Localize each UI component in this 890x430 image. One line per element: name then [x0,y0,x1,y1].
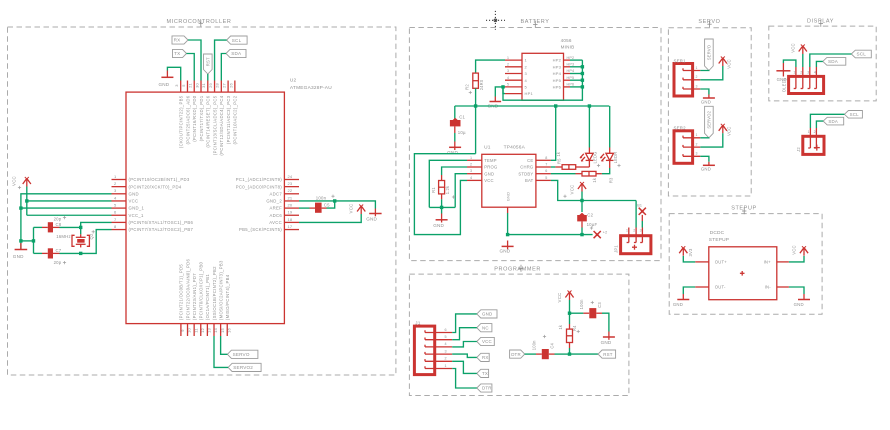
led LEDG [580,148,598,168]
svg-text:VCC: VCC [792,245,797,254]
flag SCL [227,36,248,44]
supply VCC SER2 [700,124,731,147]
ground stepup out [673,287,695,307]
frame STEPUP [669,206,822,315]
supply VCC left [12,176,31,186]
svg-text:26: 26 [228,83,233,88]
flag SDA [226,49,246,57]
svg-text:Q2: Q2 [89,233,94,239]
svg-text:HP2: HP2 [553,58,562,63]
svg-text:(PCINT11/ADC3)_PC3: (PCINT11/ADC3)_PC3 [226,95,231,144]
svg-text:1: 1 [808,130,810,134]
svg-text:PC1_(ADC1/PCINT9): PC1_(ADC1/PCINT9) [236,177,282,182]
wire SERVO2 to pin 15 [214,336,228,367]
frame SERVO [668,19,751,196]
wire ground line battery [506,213,593,236]
svg-text:24R0: 24R0 [479,79,484,90]
ground right of U2 [366,209,381,222]
svg-text:28: 28 [215,83,220,88]
svg-text:(PCINT10/ADC2)_PC2: (PCINT10/ADC2)_PC2 [233,95,238,144]
svg-text:SERVO2: SERVO2 [233,365,253,370]
svg-text:31: 31 [201,83,206,88]
svg-text:CHRG: CHRG [520,165,533,170]
svg-text:GND: GND [13,254,24,259]
connector J1 programming header [414,320,452,374]
svg-text:30: 30 [194,83,199,88]
svg-text:4056: 4056 [561,38,572,43]
svg-text:21: 21 [288,195,293,200]
svg-text:7: 7 [545,163,547,167]
svg-text:(PCINT16/RXD)_PD0: (PCINT16/RXD)_PD0 [192,95,197,142]
wire J1 to VCC [452,342,477,347]
svg-text:NC: NC [482,325,489,330]
wire battery plus [635,201,637,228]
flag RST [204,54,213,74]
svg-text:HP2: HP2 [567,56,575,60]
connector X1 4056 MINIB usb charger [505,38,574,100]
flag DTR programmer [477,384,492,392]
svg-text:10µF: 10µF [587,222,598,227]
svg-text:(PCINT19/OC2B/INT1)_PD3: (PCINT19/OC2B/INT1)_PD3 [129,177,190,182]
wire TX to pin 31 [187,54,195,81]
wire XTAL1 pin7 [81,222,112,234]
wire usb pin1 to R2 [476,60,505,73]
wire PROG to R1 [442,167,467,175]
svg-text:3: 3 [507,69,509,73]
svg-text:2: 2 [633,229,635,233]
svg-text:SDA: SDA [828,119,838,124]
ground stepup in [789,287,810,307]
wire SERVO2 [700,137,709,139]
ground OLED1 [776,60,796,82]
resistor R5 1k [555,151,589,169]
resistor R3 1k [576,171,614,183]
ground SER1 [700,89,715,104]
svg-text:VCC: VCC [727,59,732,68]
svg-text:(PCINT22/OC0A/AIN0)_PD6: (PCINT22/OC0A/AIN0)_PD6 [185,259,190,321]
svg-text:3V3: 3V3 [688,248,693,257]
svg-text:4: 4 [445,342,447,346]
origin crosshair [486,11,505,30]
wire J1 to NC [452,328,477,340]
svg-text:1: 1 [445,364,447,368]
svg-text:GND: GND [701,167,711,172]
svg-text:RX: RX [482,355,489,360]
svg-text:J2: J2 [796,147,801,152]
connector SER2 [674,126,701,164]
wire GND node TP4056 [429,174,467,214]
capacitor C1 10u [450,106,466,142]
wire J1 to TX [452,361,477,373]
svg-text:R2: R2 [465,84,470,90]
svg-text:R3: R3 [608,177,613,183]
svg-text:DTR: DTR [511,352,521,357]
svg-text:3: 3 [445,349,447,353]
svg-text:GND_2: GND_2 [266,199,282,204]
svg-text:ADC7: ADC7 [269,191,282,196]
svg-text:VCC: VCC [727,127,732,136]
wire J1 to DTR [452,369,477,389]
svg-text:1.2k: 1.2k [445,185,450,194]
svg-text:2: 2 [696,75,698,79]
svg-text:HP4: HP4 [567,69,575,73]
svg-text:GND: GND [433,223,444,228]
connector OLED1 [782,67,824,94]
svg-text:4: 4 [470,176,472,180]
svg-text:HP1: HP1 [525,91,534,96]
svg-text:22: 22 [288,188,293,193]
svg-text:VCC: VCC [348,204,353,214]
svg-text:100n: 100n [316,195,327,200]
ground top-left of U2 [159,71,174,88]
svg-text:RST: RST [205,57,210,66]
wire GND_2 pin21 [299,199,375,208]
svg-text:23: 23 [288,181,293,186]
flag RX [172,36,188,44]
svg-text:STEPUP: STEPUP [709,237,729,243]
svg-text:(PCINT25/ADC6)_AD6: (PCINT25/ADC6)_AD6 [185,95,190,144]
svg-text:VCC: VCC [790,43,795,52]
wire SCL display [810,54,852,67]
svg-text:LEDR: LEDR [613,152,618,164]
svg-text:DTR: DTR [482,386,492,391]
svg-text:SER2: SER2 [674,126,687,131]
svg-text:MINIB: MINIB [561,45,575,50]
wire BAT net [551,180,636,202]
svg-text:GND: GND [366,217,377,222]
wire GND to pins 3 and 5 [19,194,111,250]
svg-text:24: 24 [288,174,293,179]
flag RST programmer [598,350,616,358]
svg-text:GND: GND [482,312,492,317]
flag TX programmer [477,369,489,377]
svg-text:C3: C3 [597,302,602,308]
ground TP4056 [500,241,514,254]
svg-text:6: 6 [545,169,547,173]
connector J2 [796,128,824,154]
svg-text:20p: 20p [54,260,62,265]
svg-text:IN+: IN+ [764,260,772,265]
svg-text:HP3: HP3 [567,63,575,67]
svg-text:4: 4 [814,70,816,74]
ground SER2 [700,156,715,171]
svg-text:VCC: VCC [570,185,575,195]
svg-text:CE: CE [527,158,533,163]
svg-text:(PCINT17/TXD)_PD1: (PCINT17/TXD)_PD1 [199,95,204,141]
origin marks [18,91,621,338]
ground R1 [433,214,447,229]
svg-text:TP4056A: TP4056A [504,145,526,151]
svg-text:RX: RX [174,38,181,43]
capacitor C2 10uF [577,201,597,235]
svg-text:TX: TX [482,371,488,376]
flag SERVO2 [228,363,261,371]
led LEDR [600,148,618,174]
svg-text:14: 14 [213,328,218,333]
svg-text:SCL: SCL [850,112,859,117]
svg-text:IN-: IN- [765,285,772,290]
svg-text:13: 13 [207,328,212,333]
svg-text:17: 17 [288,224,293,229]
wire SDA display [816,61,822,67]
wire SERVO [700,69,709,71]
flag GND programmer [477,310,497,318]
svg-text:3: 3 [470,169,472,173]
module U3 DCDC STEPUP converter [695,230,789,300]
svg-text:2: 2 [800,70,802,74]
svg-text:C4: C4 [549,342,554,348]
svg-text:BAT: BAT [525,178,534,183]
svg-text:GND: GND [159,82,170,87]
svg-text:HP5: HP5 [553,78,562,83]
svg-text:SERVO2: SERVO2 [707,110,712,128]
svg-text:1: 1 [696,66,698,70]
svg-text:B1: B1 [637,203,642,207]
svg-text:C2: C2 [587,212,593,217]
svg-text:2: 2 [507,63,509,67]
svg-text:GND: GND [601,340,612,345]
capacitor C4 100n [525,340,570,359]
svg-text:PB5_(SCK/PCINT5): PB5_(SCK/PCINT5) [239,227,282,232]
svg-text:ATMEGA328P-AU: ATMEGA328P-AU [290,85,332,91]
svg-text:SCL: SCL [232,38,242,43]
svg-text:STDBY: STDBY [518,171,533,176]
svg-text:1k: 1k [556,151,561,156]
svg-text:(PCINT21/OC0B/T1)_PD5: (PCINT21/OC0B/T1)_PD5 [179,264,184,320]
svg-text:(OC1A/PCINT1)_PB1: (OC1A/PCINT1)_PB1 [205,274,210,321]
svg-text:SCL: SCL [857,52,867,57]
wire J1 to GND [452,314,477,333]
svg-text:C8: C8 [56,222,62,227]
capacitor C8 20p [34,216,83,232]
svg-text:PC0_(ADC0/PCINT8): PC0_(ADC0/PCINT8) [236,184,282,189]
flag TX [173,49,187,57]
svg-text:(PCINT7/XTAL2/TOSC2)_PB7: (PCINT7/XTAL2/TOSC2)_PB7 [129,227,194,232]
svg-text:GND_1: GND_1 [129,206,145,211]
supply VCC right AVCC [299,204,365,223]
svg-text:HP6: HP6 [553,85,562,90]
svg-text:GND: GND [484,171,494,176]
svg-text:C5: C5 [324,202,330,207]
svg-text:LEDG: LEDG [592,152,597,164]
flag SDA display [823,58,846,66]
wire SERVO to pin 16 [221,336,228,354]
svg-text:11: 11 [193,328,198,333]
svg-text:4: 4 [507,76,509,80]
svg-text:20p: 20p [54,216,62,221]
svg-text:U1: U1 [484,145,491,151]
svg-text:2: 2 [445,357,447,361]
svg-text:(SS/OC1B/PCINT2)_PB2: (SS/OC1B/PCINT2)_PB2 [212,266,217,320]
svg-text:VCC: VCC [484,178,493,183]
wire CE to bus [551,106,556,160]
wire SCL to pin 28 [215,40,227,80]
svg-text:PROG: PROG [484,165,497,170]
wire LEDR to bus [609,106,611,148]
svg-text:1: 1 [793,70,795,74]
svg-text:+2: +2 [603,231,608,235]
svg-text:1: 1 [696,133,698,137]
wire GND to top pin [167,67,180,80]
svg-text:1k: 1k [592,177,597,182]
capacitor C5 100n [299,195,335,213]
svg-text:15: 15 [220,328,225,333]
svg-text:(MOSI/OC2A/PCINT3)_PB3: (MOSI/OC2A/PCINT3)_PB3 [218,260,223,320]
wire RX to pin 30 [188,40,201,81]
supply VCC programmer [557,291,574,315]
svg-text:AVCC: AVCC [269,220,282,225]
svg-text:GND: GND [794,302,804,307]
svg-text:12: 12 [200,328,205,333]
svg-text:GND: GND [129,191,139,196]
wire VBUS bus [455,104,610,107]
svg-text:8: 8 [545,156,547,160]
svg-text:2: 2 [470,163,472,167]
svg-text:1: 1 [470,156,472,160]
svg-text:16: 16 [226,328,231,333]
svg-text:1k: 1k [558,324,563,329]
svg-text:HP5: HP5 [567,76,575,80]
svg-text:20: 20 [288,203,293,208]
svg-text:VCC: VCC [482,339,492,344]
svg-text:JP1: JP1 [614,245,619,253]
wire CHRG [551,166,556,168]
svg-text:3: 3 [640,229,642,233]
wire SCL J2 [810,114,844,128]
svg-text:SER1: SER1 [674,58,687,63]
svg-text:19: 19 [288,210,293,215]
svg-text:U2: U2 [290,78,297,84]
svg-text:(MISO/PCINT4)_PB4: (MISO/PCINT4)_PB4 [225,274,230,320]
flag NC programmer [477,324,492,332]
svg-text:5: 5 [545,176,547,180]
svg-text:21: 21 [188,83,193,88]
flag RX programmer [477,353,489,361]
svg-text:GND: GND [673,302,683,307]
supply VCC stepup in [789,245,808,262]
supply 3V3 stepup out [679,246,695,262]
svg-text:GND: GND [777,77,787,82]
connector JP1 battery [614,228,651,254]
ground C3 [601,332,615,345]
svg-text:(PCINT13/SCL/ADC5)_PC5: (PCINT13/SCL/ADC5)_PC5 [212,95,217,155]
resistor R4 1k pullup [558,313,577,354]
svg-text:RST: RST [603,352,612,357]
svg-text:R1: R1 [431,187,436,193]
flag DTR programmer right [510,350,525,358]
svg-text:TEMP: TEMP [484,158,496,163]
svg-text:OUT-: OUT- [715,285,726,290]
svg-text:ADC6: ADC6 [269,213,282,218]
svg-text:(PCINT12/SDA/ADC4)_PC4: (PCINT12/SDA/ADC4)_PC4 [219,95,224,155]
svg-text:100n: 100n [579,299,584,309]
wire SDA to pin 27 [221,54,226,81]
svg-text:6: 6 [445,328,447,332]
flag SCL display [851,50,871,58]
svg-text:5: 5 [507,83,509,87]
svg-text:HP3: HP3 [553,64,562,69]
svg-text:VCC: VCC [129,199,139,204]
svg-text:10: 10 [187,328,192,333]
svg-text:OUT+: OUT+ [715,260,727,265]
svg-text:(CKOUT/PCINT22)_PB5: (CKOUT/PCINT22)_PB5 [179,95,184,148]
section origin marks [199,20,823,272]
connector SER1 [674,58,701,96]
flag SERVO [227,350,258,358]
svg-text:1: 1 [626,229,628,233]
svg-text:R5: R5 [557,158,562,164]
svg-text:10µ: 10µ [458,130,466,135]
svg-text:TX: TX [174,51,180,56]
supply VCC OLED1 [790,43,807,67]
ground left [13,243,27,259]
resistor R2 24R0 [465,73,484,90]
svg-text:SDA: SDA [828,59,839,64]
wire LEDG to bus [588,106,590,148]
svg-text:HP4: HP4 [553,71,562,76]
svg-text:VCC_1: VCC_1 [129,213,145,218]
wire VCC to pins 4 and 6 [25,187,111,216]
svg-text:SERVO: SERVO [707,45,712,60]
svg-text:DCDC: DCDC [710,230,725,236]
frame DISPLAY [769,18,876,101]
node B1 [637,203,646,227]
frame PROGRAMMER [409,266,629,395]
svg-text:GND: GND [701,99,711,104]
svg-text:100n: 100n [532,340,537,350]
svg-text:J1: J1 [415,320,421,326]
svg-text:5: 5 [445,335,447,339]
svg-text:2: 2 [814,130,816,134]
svg-text:27: 27 [221,83,226,88]
IC U1 TP4056A charger [467,145,551,213]
svg-text:3: 3 [696,84,698,88]
flag SERVO2 [705,106,714,138]
svg-text:PROGRAMMER: PROGRAMMER [494,266,541,272]
svg-text:1: 1 [507,56,509,60]
svg-text:C1: C1 [459,114,465,119]
wire RST to pin 29 [207,74,209,81]
svg-text:HP6: HP6 [567,83,575,87]
svg-text:(PCINT14/RESET)_PC6: (PCINT14/RESET)_PC6 [206,95,211,147]
supply VCC battery [570,182,587,201]
crystal Q2 16MHz [56,233,94,247]
svg-text:R4: R4 [572,325,577,331]
svg-text:MICROCONTROLLER: MICROCONTROLLER [167,19,232,25]
wire HP bus [503,60,584,100]
frame MICROCONTROLLER [8,19,396,375]
flag VCC programmer [477,337,495,345]
IC U2 ATMEGA328P-AU microcontroller [112,78,333,337]
wire R2 to bus [474,88,477,153]
svg-text:2: 2 [696,143,698,147]
wire STDBY [551,173,576,175]
wire J1 to RX [452,354,477,357]
frame BATTERY [409,19,661,261]
wire XTAL2 pin8 [81,230,112,254]
svg-text:VCC: VCC [12,176,17,186]
svg-text:16MHz: 16MHz [56,234,71,239]
flag SCL J2 [844,111,862,119]
svg-text:(PCINT6/XTAL1/TOSC1)_PB6: (PCINT6/XTAL1/TOSC1)_PB6 [129,220,194,225]
svg-text:(PCINT23/AIN1)_PD7: (PCINT23/AIN1)_PD7 [192,273,197,320]
svg-text:AREF: AREF [269,206,282,211]
flag SDA J2 [823,117,844,125]
flag SERVO [705,39,714,71]
supply VCC SER1 [700,57,731,80]
svg-text:(PCINT20/XCK/T0)_PD4: (PCINT20/XCK/T0)_PD4 [129,184,182,189]
capacitor C3 100n [570,299,609,332]
